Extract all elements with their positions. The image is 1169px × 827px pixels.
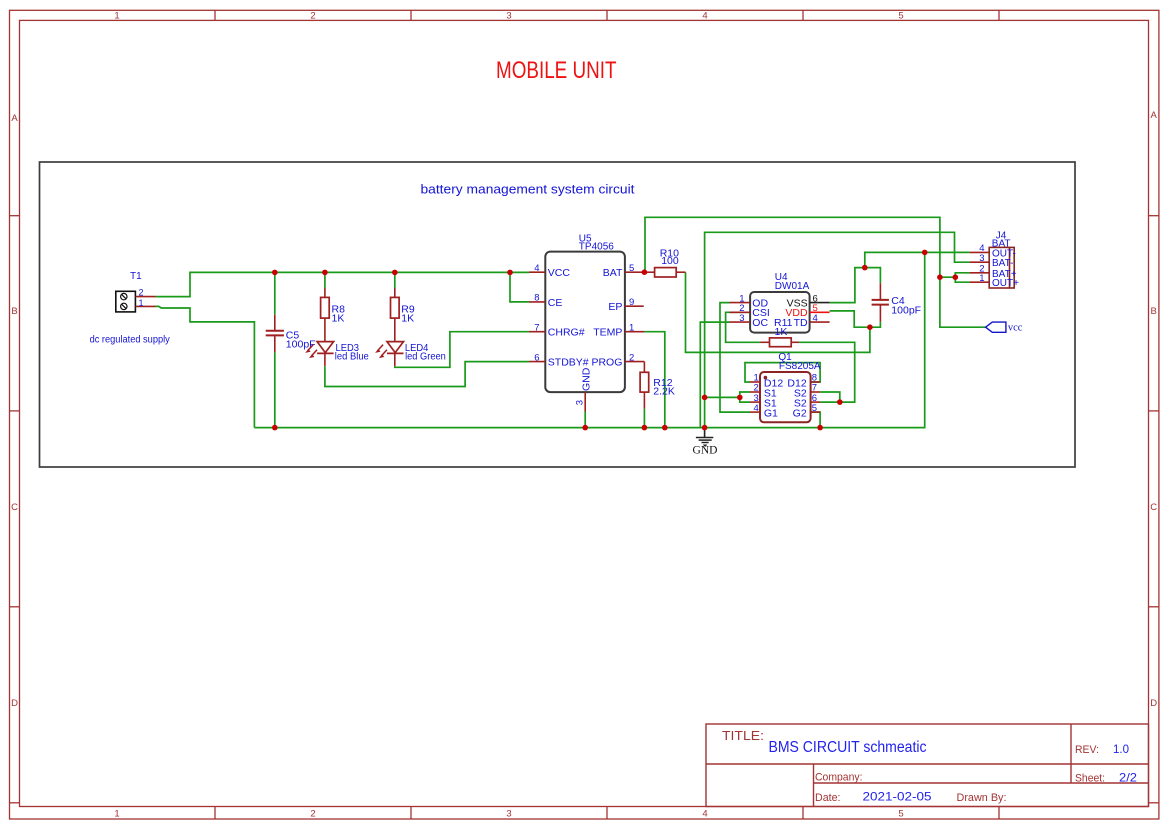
- svg-text:1K: 1K: [401, 313, 414, 325]
- junction C5 top: [272, 270, 278, 276]
- junction C5 bottom: [272, 425, 278, 431]
- U4 pin 5 VDD: [785, 303, 829, 319]
- wire BAT+ rail to vcc flag: [645, 217, 986, 327]
- svg-text:2: 2: [629, 352, 634, 363]
- svg-text:100pF: 100pF: [286, 338, 316, 350]
- svg-text:1K: 1K: [332, 313, 345, 325]
- U5 pin 5 BAT: [603, 263, 645, 279]
- wire LED4 to CHRG#: [395, 332, 529, 368]
- wire G2 to rail: [811, 412, 821, 428]
- svg-text:4: 4: [702, 809, 707, 820]
- svg-text:1K: 1K: [775, 326, 788, 338]
- junction TEMP rail: [662, 425, 668, 431]
- svg-text:VCC: VCC: [548, 267, 571, 279]
- svg-text:BMS CIRCUIT schmeatic: BMS CIRCUIT schmeatic: [769, 739, 927, 756]
- svg-text:C: C: [1150, 502, 1157, 513]
- svg-text:1: 1: [114, 809, 119, 820]
- svg-text:2/2: 2/2: [1119, 771, 1137, 785]
- svg-text:G1: G1: [764, 408, 778, 420]
- svg-text:CE: CE: [548, 297, 563, 309]
- svg-text:8: 8: [534, 293, 539, 304]
- wire C5 top riser: [274, 272, 276, 314]
- U5 pin 1 TEMP: [593, 322, 644, 338]
- U4 pin 1 OD: [730, 293, 769, 309]
- net flag vcc: [986, 322, 1023, 334]
- svg-text:1.0: 1.0: [1113, 742, 1129, 756]
- svg-text:2: 2: [310, 809, 315, 820]
- U5 pin 6 STDBY#: [529, 352, 589, 368]
- junction S1 net right: [737, 395, 743, 401]
- transistor Q1 FS8205A: [760, 352, 821, 422]
- svg-text:BAT-: BAT-: [992, 258, 1013, 269]
- IC U4 DW01A: [750, 272, 810, 333]
- svg-text:REV:: REV:: [1075, 744, 1099, 756]
- junction S1 net left: [702, 395, 708, 401]
- svg-text:GND: GND: [581, 367, 593, 391]
- J4 pin 1 OUT+: [970, 273, 1020, 289]
- svg-text:TEMP: TEMP: [593, 327, 622, 339]
- svg-text:dc regulated supply: dc regulated supply: [90, 334, 170, 345]
- svg-text:Date:: Date:: [815, 792, 841, 804]
- svg-text:B: B: [1151, 306, 1157, 317]
- U4 pin 3 OC: [730, 313, 769, 329]
- svg-text:OUT+: OUT+: [992, 278, 1019, 289]
- Q1 pin 4 G1: [750, 403, 778, 420]
- svg-text:5: 5: [898, 11, 903, 22]
- svg-text:STDBY#: STDBY#: [548, 357, 589, 369]
- junction R9 top: [392, 270, 398, 276]
- J4 pin 2 BAT+: [970, 264, 1017, 280]
- svg-text:5: 5: [898, 809, 903, 820]
- wire U5 GND pin to rail: [584, 412, 586, 428]
- wire OC to rail: [700, 322, 729, 428]
- svg-text:1: 1: [114, 11, 119, 22]
- U5 pin 3 GND: [575, 367, 593, 411]
- svg-text:PROG: PROG: [591, 357, 622, 369]
- wire C5 bottom riser: [274, 352, 276, 427]
- svg-text:GND: GND: [693, 445, 718, 457]
- U4 pin 4 TD: [794, 313, 830, 329]
- svg-text:6: 6: [534, 352, 539, 363]
- Q1 pin 6 S2: [794, 393, 820, 410]
- svg-text:Sheet:: Sheet:: [1075, 773, 1105, 785]
- svg-text:led Green: led Green: [405, 351, 446, 363]
- Q1 pin 1 D12: [750, 373, 783, 390]
- svg-text:D: D: [1150, 698, 1157, 709]
- svg-text:DW01A: DW01A: [775, 281, 810, 292]
- svg-text:9: 9: [629, 297, 634, 308]
- IC U5 TP4056: [545, 233, 625, 392]
- connector J4 BAT: [989, 230, 1014, 288]
- wire TEMP to rail: [644, 332, 664, 428]
- U5 pin 2 PROG: [591, 352, 644, 368]
- svg-text:4: 4: [534, 263, 539, 274]
- U5 pin 8 CE: [529, 293, 562, 309]
- U4 pin 6 VSS: [787, 293, 830, 309]
- wire R10 to VDD node: [686, 272, 870, 352]
- U4 pin 2 CSI: [730, 303, 770, 319]
- wire R11 to S2 pins: [799, 342, 855, 402]
- wire R9 riser: [394, 272, 396, 288]
- svg-text:Company:: Company:: [815, 772, 863, 784]
- junction BAT pin: [642, 269, 648, 275]
- svg-text:3: 3: [979, 253, 984, 264]
- resistor R12: [640, 362, 675, 409]
- svg-text:TITLE:: TITLE:: [722, 729, 764, 743]
- svg-text:B: B: [11, 306, 17, 317]
- resistor R9: [391, 288, 415, 341]
- U5 pin 7 CHRG#: [529, 322, 585, 338]
- svg-text:T1: T1: [130, 271, 142, 282]
- resistor R10: [644, 248, 685, 278]
- U5 pin 9 EP: [608, 297, 643, 313]
- wire CE drop: [510, 272, 529, 302]
- svg-text:100: 100: [661, 255, 679, 267]
- wire S1 pin3 branch: [740, 397, 750, 402]
- wire C4 top to node: [865, 268, 881, 284]
- connector T1: [116, 271, 156, 312]
- wire GND to BAT-: [705, 232, 970, 427]
- Q1 pin 7 S2: [794, 383, 820, 400]
- wire J4 link to BAT+ rail: [940, 276, 955, 278]
- Q1 pin 8 D12: [787, 373, 820, 390]
- wire OD to G1: [720, 303, 750, 413]
- wire R8 riser: [324, 272, 326, 288]
- svg-text:3: 3: [575, 400, 586, 405]
- svg-text:7: 7: [534, 322, 539, 333]
- svg-text:vcc: vcc: [1008, 323, 1023, 334]
- svg-text:D: D: [11, 698, 18, 709]
- junction G2 rail: [817, 425, 823, 431]
- Q1 pin 5 G2: [793, 403, 820, 420]
- junction vcc column: [937, 274, 943, 280]
- svg-text:TP4056: TP4056: [579, 241, 614, 252]
- junction GND symbol rail: [702, 425, 708, 431]
- capacitor C4: [872, 283, 921, 321]
- wire CSI to R11: [726, 312, 761, 342]
- wire J4 pins 1-2 link: [955, 273, 969, 282]
- svg-text:5: 5: [629, 263, 634, 274]
- svg-text:4: 4: [813, 313, 818, 324]
- svg-text:OC: OC: [752, 317, 768, 329]
- svg-text:5: 5: [812, 403, 817, 414]
- svg-text:MOBILE UNIT: MOBILE UNIT: [496, 57, 617, 84]
- junction J4 link: [953, 274, 959, 280]
- junction VSS C4 node: [862, 265, 868, 271]
- svg-text:TD: TD: [794, 317, 808, 329]
- circuit enclosure box: [40, 162, 1076, 467]
- wire T1 pin1 to GND rail: [156, 306, 255, 427]
- wire S1 pin2 branch: [740, 392, 750, 397]
- svg-text:BAT: BAT: [603, 267, 623, 279]
- J4 pin 4 OUT-: [970, 243, 1016, 259]
- svg-text:G2: G2: [793, 408, 807, 420]
- svg-text:C: C: [11, 502, 18, 513]
- capacitor C5: [266, 315, 316, 353]
- resistor R8: [321, 288, 345, 341]
- junction OUT- column: [922, 250, 928, 256]
- junction R8 top: [322, 270, 328, 276]
- wire net VCC top rail: [156, 272, 530, 296]
- svg-text:battery management system circ: battery management system circuit: [421, 183, 636, 197]
- svg-text:1: 1: [629, 322, 634, 333]
- svg-text:3: 3: [506, 809, 511, 820]
- wire LED3 to STDBY#: [325, 362, 529, 387]
- wire S1 pins link: [705, 396, 740, 398]
- svg-text:FS8205A: FS8205A: [779, 361, 821, 372]
- svg-text:1: 1: [979, 273, 984, 284]
- J4 pin 3 BAT-: [970, 253, 1014, 269]
- wire node to J4 OUT-: [865, 252, 970, 267]
- svg-text:CHRG#: CHRG#: [548, 327, 585, 339]
- junction VDD C4 node: [867, 324, 873, 330]
- U5 pin 4 VCC: [529, 263, 570, 279]
- Q1 pin 2 S1: [750, 383, 777, 400]
- LED LED3: [306, 342, 369, 367]
- svg-text:2: 2: [310, 11, 315, 22]
- ground symbol GND: [693, 428, 718, 457]
- LED LED4: [376, 342, 446, 367]
- title block: [706, 724, 1149, 807]
- junction CE drop: [507, 270, 513, 276]
- wire R12 to rail: [643, 409, 645, 428]
- wire VDD pin: [830, 311, 881, 327]
- svg-text:EP: EP: [608, 301, 622, 313]
- svg-text:100pF: 100pF: [891, 304, 921, 316]
- wire VSS pin to C4 top node: [830, 268, 865, 303]
- svg-text:4: 4: [754, 403, 759, 414]
- svg-text:A: A: [11, 113, 18, 124]
- junction R12 rail: [642, 425, 648, 431]
- junction U5 GND rail: [582, 425, 588, 431]
- junction S2 net: [837, 399, 843, 405]
- svg-text:Drawn By:: Drawn By:: [957, 792, 1007, 804]
- resistor R11: [760, 317, 799, 347]
- svg-text:2: 2: [139, 288, 144, 298]
- svg-text:3: 3: [739, 313, 744, 324]
- svg-text:led Blue: led Blue: [335, 351, 369, 363]
- svg-text:2021-02-05: 2021-02-05: [863, 790, 932, 804]
- svg-text:4: 4: [702, 11, 707, 22]
- wire S2 pin7 branch: [820, 392, 840, 402]
- Q1 pin 3 S1: [750, 393, 777, 410]
- svg-text:1: 1: [139, 298, 144, 308]
- svg-text:A: A: [1151, 110, 1158, 121]
- svg-text:2.2K: 2.2K: [653, 386, 675, 398]
- wire D12 bridge: [745, 363, 820, 382]
- wire GND bottom rail: [254, 252, 924, 427]
- svg-text:3: 3: [506, 11, 511, 22]
